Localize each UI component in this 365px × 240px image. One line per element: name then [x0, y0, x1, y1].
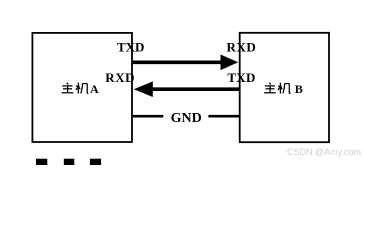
- svg-text:CSDN @Amy.com: CSDN @Amy.com: [287, 147, 361, 157]
- svg-text:TXD: TXD: [227, 70, 255, 85]
- svg-text:RXD: RXD: [105, 70, 135, 85]
- svg-text:A: A: [90, 82, 99, 96]
- svg-text:TXD: TXD: [117, 40, 144, 55]
- svg-text:B: B: [295, 82, 303, 96]
- svg-text:RXD: RXD: [227, 40, 257, 55]
- svg-text:GND: GND: [171, 111, 202, 126]
